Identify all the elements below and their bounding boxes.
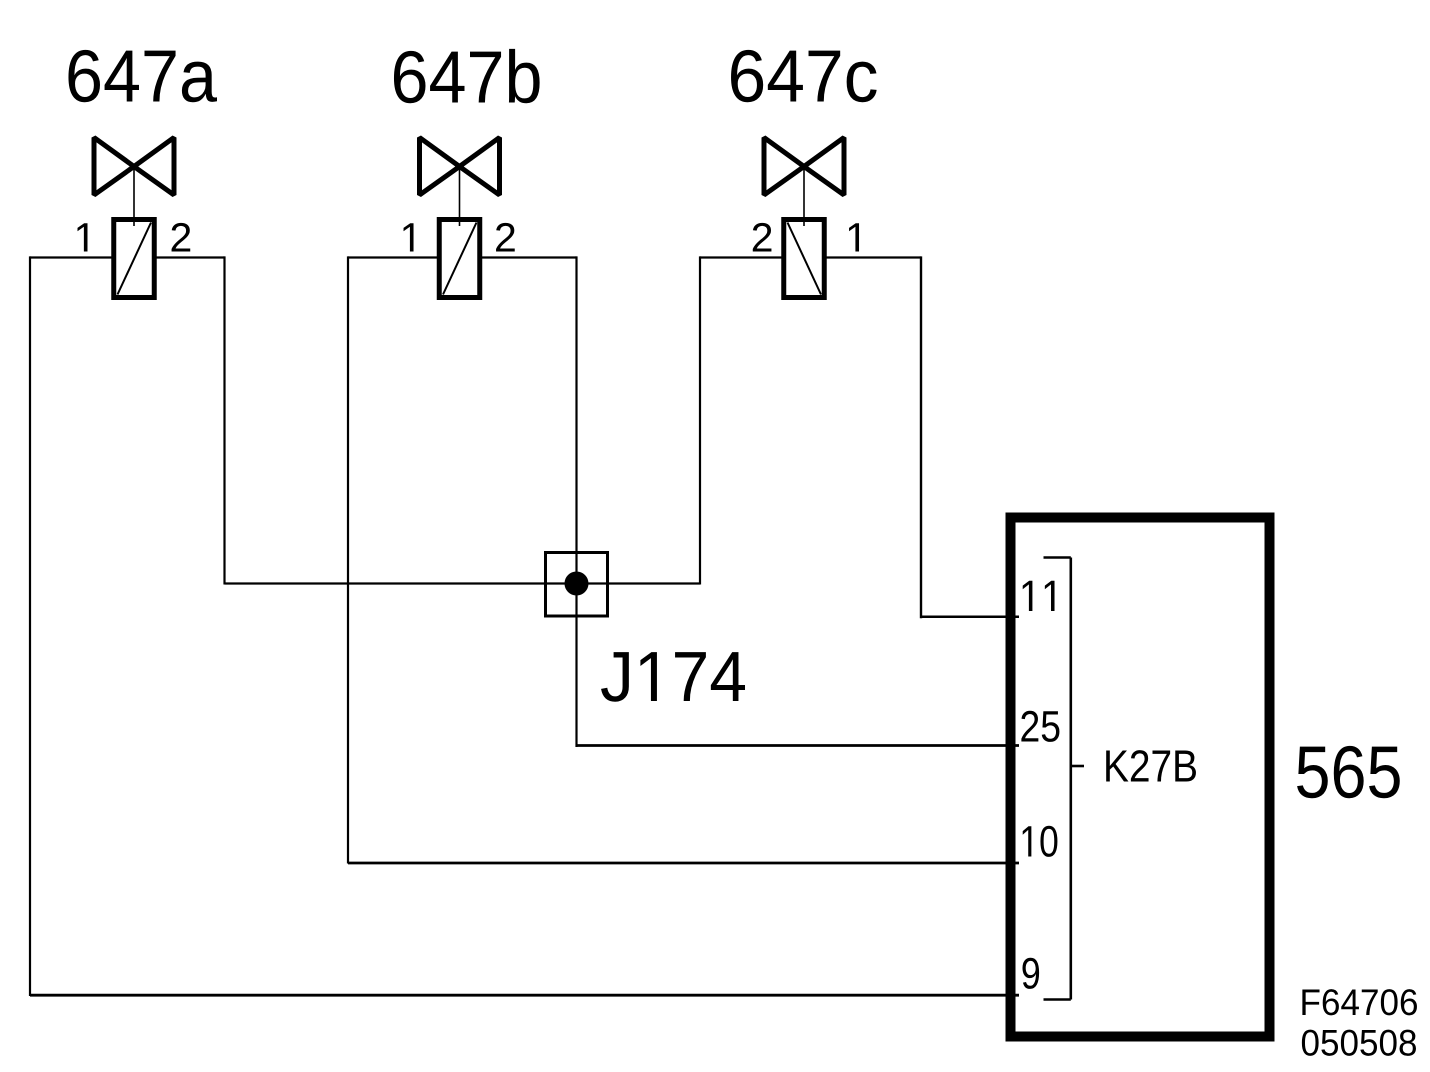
pin label 1 (647a left) [78,223,88,251]
pin label 11 [1023,581,1055,611]
pin label 9 [1022,958,1039,989]
junction J174 label [601,652,745,702]
valve 647a stem wire [133,167,135,226]
wire 647c pin2 horizontal [700,256,782,258]
ECU label 565 [1297,746,1400,798]
connector label K27B [1106,750,1196,781]
wire 647a pin1 vertical down [29,256,31,996]
connector K27B bracket top stub [1044,556,1071,559]
pin label 2 (647b right) [496,223,515,252]
junction J174 splice dot [565,572,589,596]
valve 647b label [394,49,540,103]
connector box 647a [114,220,155,298]
footer id 050508 [1302,1030,1416,1056]
junction J174 box [546,553,608,617]
valve 647c label [731,50,877,102]
footer id F64706 [1302,989,1417,1015]
wire 647b pin2 vertical down through J174 to pin25 row [575,256,577,747]
wire 647c pin1 vertical down [920,256,922,618]
wire 647a pin2 vertical down [223,256,225,584]
connector K27B bracket vertical [1070,558,1073,1000]
wire to pin 11 [921,616,1019,619]
pin label 25 [1021,711,1059,742]
wire to pin 9 [30,994,1019,997]
connector box 647a diagonal [118,223,152,295]
ECU box 565 outline [1011,518,1270,1037]
pin label 2 (647a right) [172,223,191,252]
wire 647b pin1 horizontal [348,256,438,258]
pin label 1 (647b left) [404,223,414,251]
pin label 1 (647c right) [849,223,859,251]
pin label 2 (647c left) [753,223,772,252]
wire to pin 10 [348,862,1019,865]
connector box 647b diagonal [443,223,477,295]
valve 647c symbol [764,138,844,196]
valve 647a symbol [94,138,174,196]
wire 647c pin1 horizontal [827,256,922,258]
valve 647c stem wire [803,167,805,226]
valve 647b symbol [420,138,500,196]
pin label 10 [1023,826,1058,857]
connector box 647c diagonal [788,223,822,295]
connector box 647c [784,220,825,298]
valve 647b stem wire [459,167,461,226]
wire 647a pin2 horizontal [157,256,225,258]
connector K27B bracket bottom stub [1044,998,1071,1001]
wire 647a pin1 horizontal [30,256,112,258]
wire junction row horizontal (647a pin2 to 647c pin2) [225,582,701,584]
wire 647b pin1 vertical down [347,256,349,863]
connector K27B tick [1071,765,1084,768]
connector box 647b [439,220,480,298]
valve 647a label [68,50,217,102]
wire to pin 25 [577,744,1020,747]
wire 647b pin2 horizontal [482,256,577,258]
wire 647c pin2 vertical down [699,256,701,584]
